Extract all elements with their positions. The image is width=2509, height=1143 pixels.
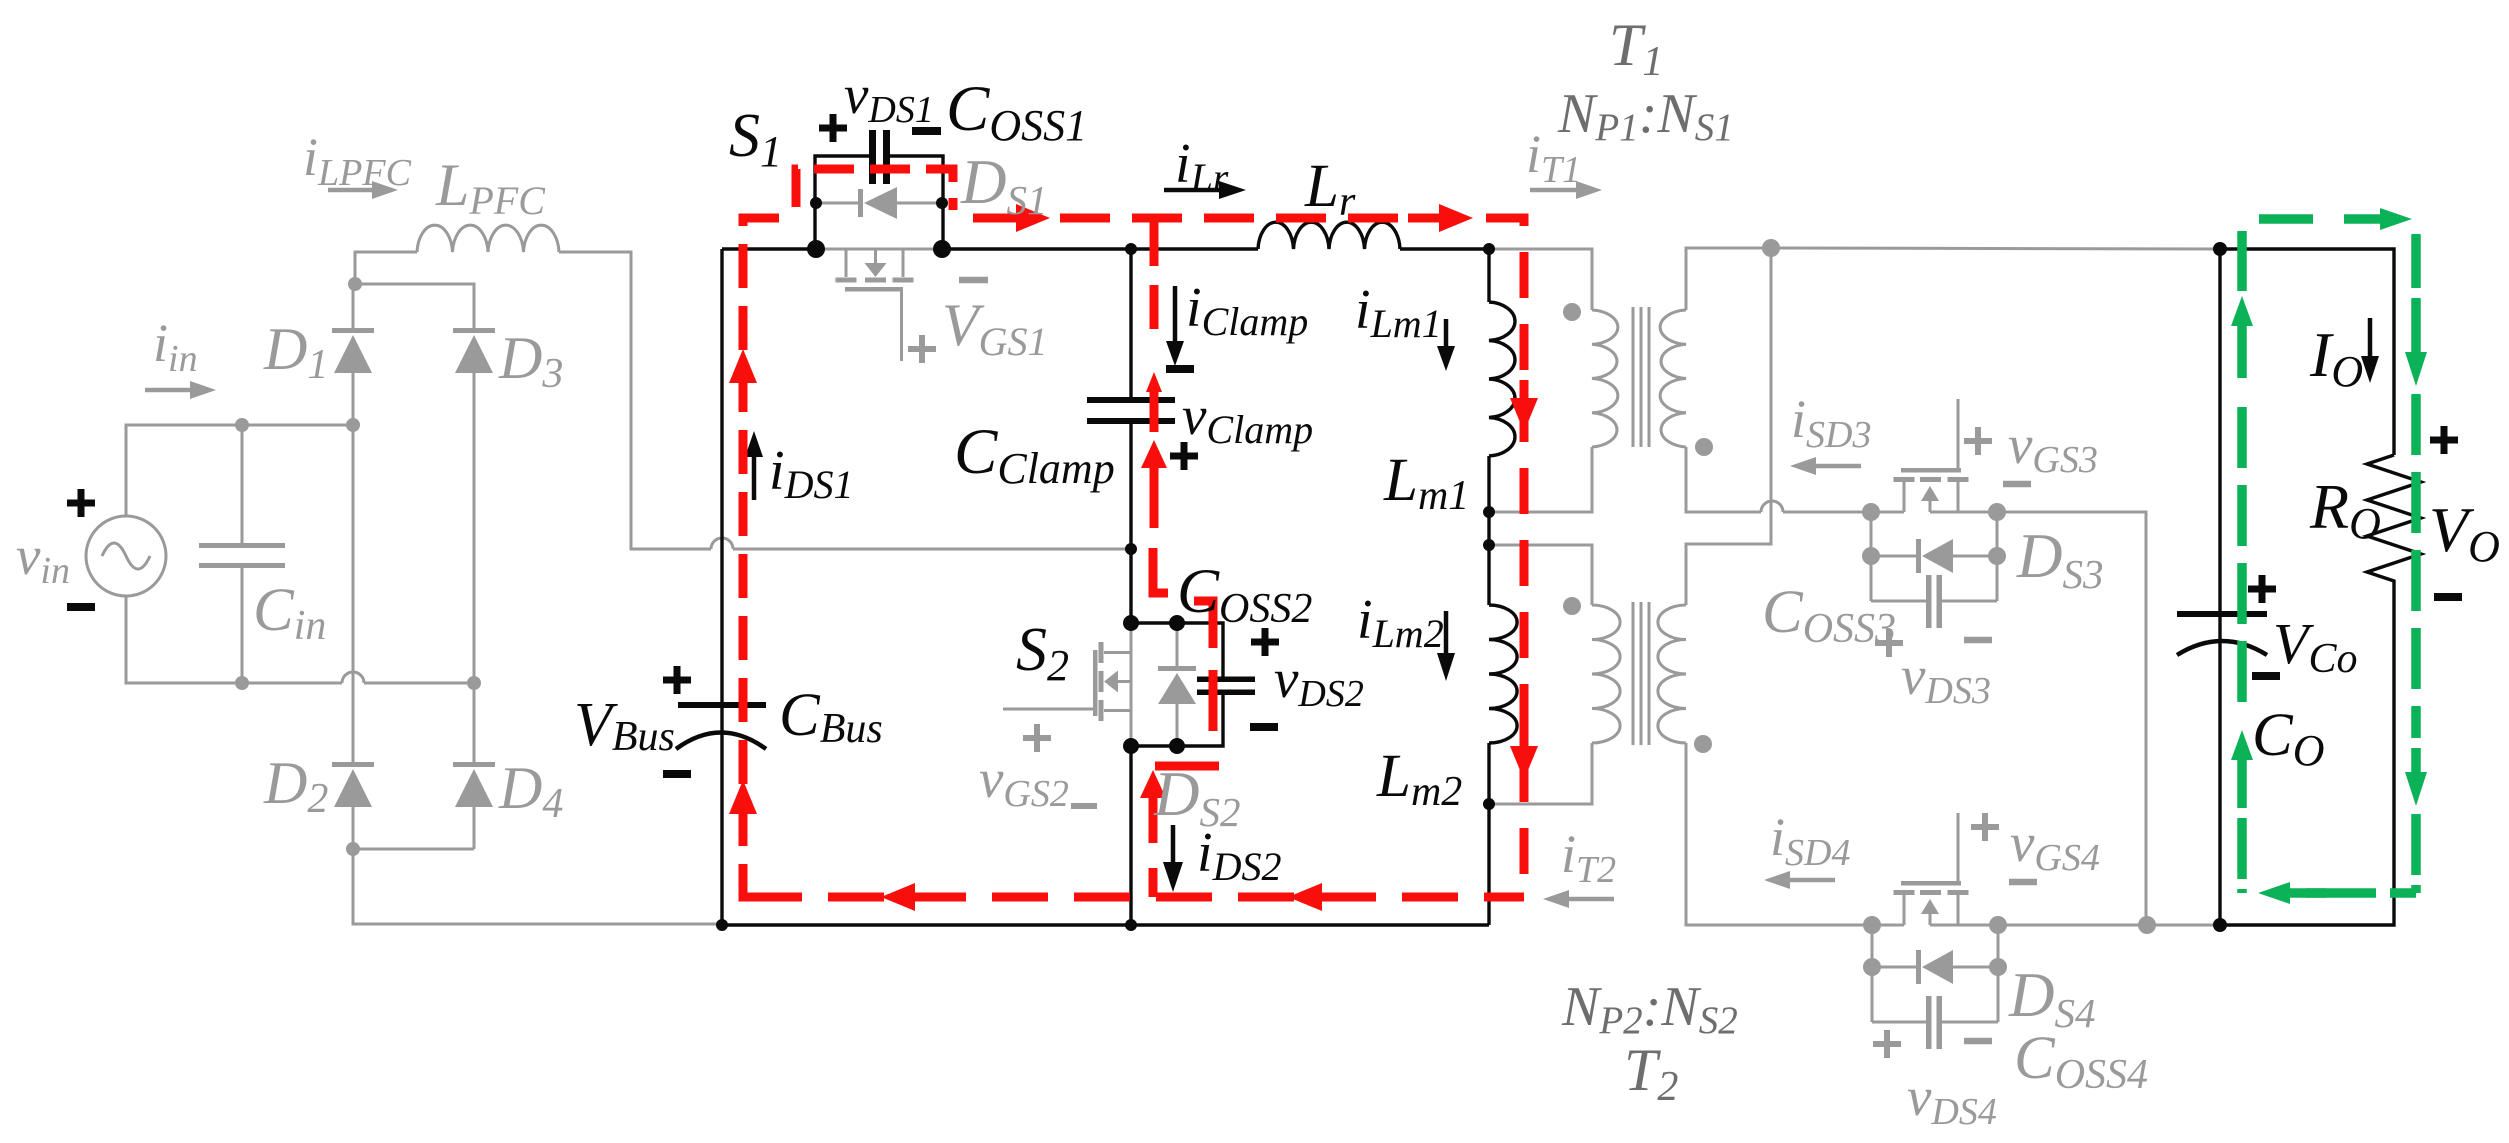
inductor Lm1 (1489, 249, 1515, 512)
mosfet S1 body (gray) (816, 249, 942, 361)
plus sign vGS4 (1971, 813, 1999, 841)
arrow iT1 (1530, 181, 1602, 199)
svg-text:iin: iin (153, 313, 198, 380)
body diode DS3 (1871, 512, 1997, 573)
red loop bottom rail dashes (746, 893, 1524, 902)
svg-text:CO: CO (2252, 702, 2324, 775)
transformer T1 primary winding (1592, 310, 1618, 447)
green arrow top right (2344, 208, 2412, 230)
wire vin bottom with hop over D1-D2 column (126, 596, 474, 683)
svg-text:Cin: Cin (253, 577, 326, 649)
wire T2 primary bottom lead (1489, 743, 1592, 804)
snubber box S2 top and right (1131, 623, 1223, 678)
svg-text:vDS2: vDS2 (1274, 648, 1364, 715)
phase dot T2 secondary (1694, 735, 1712, 753)
minus sign vClamp (1166, 365, 1194, 373)
svg-text:IO: IO (2309, 319, 2363, 396)
capacitor COSS2 (1197, 677, 1255, 696)
wire bus left leg upper (720, 249, 723, 698)
DOTS-SECTION (235, 197, 2227, 976)
body diode DS4 (1872, 925, 1998, 984)
svg-text:CBus: CBus (779, 682, 883, 752)
capacitor CBus (676, 698, 766, 925)
wire T1 primary top lead (1489, 249, 1592, 310)
svg-text:vGS3: vGS3 (2008, 414, 2098, 481)
svg-text:D2: D2 (263, 750, 328, 822)
arrow iLr (1164, 181, 1246, 199)
red clamp arrow below capacitor (1141, 440, 1167, 528)
minus sign vin (67, 603, 95, 611)
minus sign VO (2434, 593, 2462, 601)
inductor LPFC (417, 225, 559, 252)
svg-text:D3: D3 (498, 325, 563, 397)
wire T1 primary bottom lead (1489, 447, 1592, 512)
red arrow right leg down 2 (1510, 728, 1538, 780)
junction dots black (716, 197, 2227, 932)
mosfet S3 body (gray) (1894, 399, 1969, 512)
red clamp branch upper dashes (1150, 222, 1159, 330)
svg-text:VCo: VCo (2273, 611, 2357, 682)
svg-text:Lm1: Lm1 (1383, 447, 1469, 519)
red arrow bottom left 1 (881, 883, 940, 911)
phase dot T1 secondary (1695, 438, 1713, 456)
wire top rail S1 to clamp node (943, 247, 1258, 250)
wire output top rail (1771, 248, 2220, 249)
red arrow left leg up 2 (729, 780, 757, 831)
wire secondary bottom rail (1930, 924, 2220, 927)
svg-text:RO: RO (2309, 471, 2381, 548)
transformer T2 primary winding (1592, 605, 1620, 743)
plus sign VGS1 (908, 335, 936, 363)
svg-text:iSD3: iSD3 (1791, 389, 1871, 456)
junction dots gray secondary side (1762, 239, 2156, 976)
red arrow left leg up 1 (729, 349, 757, 400)
mosfet S4 body (gray) (1894, 813, 1969, 925)
wire T1 secondary top lead to output node (1686, 248, 1771, 310)
plus sign VCo (2248, 575, 2276, 603)
BLACK-SECTION (676, 130, 2421, 925)
plus sign vDS2 (1251, 628, 1279, 656)
minus sign vDS4 (1964, 1038, 1992, 1045)
plus sign vDS3 (1875, 629, 1903, 657)
red clamp arrow through capacitor (1146, 372, 1162, 432)
GRAY-SECTION (86, 181, 2220, 1049)
arrow iDS1 (745, 431, 763, 500)
arrow iSD3 (1790, 457, 1861, 475)
wire S4 drain lead (1872, 924, 1904, 927)
wire bridge return to bus negative (353, 849, 722, 924)
transformer T1 secondary winding (1660, 310, 1686, 447)
red loop right vertical (1486, 218, 1524, 893)
wire Lr to Lm node (1400, 247, 1489, 250)
wire S3 source to output leg (1997, 512, 2146, 925)
wire D4 bottom to D2 bottom (353, 848, 474, 851)
wire center tap drop to T2 secondary top (1686, 248, 1771, 605)
mosfet S2 body (gray) (1003, 623, 1131, 746)
svg-text:iT2: iT2 (1561, 824, 1616, 891)
wire output top to RO (2220, 249, 2394, 455)
capacitor COSS4 (1872, 967, 1998, 1049)
svg-text:NP2:NS2: NP2:NS2 (1561, 976, 1738, 1042)
svg-text:S2: S2 (1016, 616, 1069, 690)
plus sign CBus (663, 666, 691, 694)
arrow iLPFC (328, 181, 398, 199)
red arrow bottom left 2 (1288, 883, 1347, 911)
snubber box S2 bottom (1131, 695, 1223, 746)
minus sign VCo (2252, 672, 2280, 680)
svg-text:vDS3: vDS3 (1901, 645, 1991, 712)
wire bridge top node to LPFC (355, 252, 417, 284)
svg-text:VGS1: VGS1 (942, 292, 1048, 364)
wire bus top rail left (722, 247, 816, 250)
plus sign vClamp (1170, 442, 1198, 470)
svg-text:iSD4: iSD4 (1770, 807, 1850, 874)
minus sign vDS3 (1964, 637, 1992, 644)
minus sign vGS2 (1071, 803, 1097, 809)
resistor RO (2367, 455, 2421, 585)
red loop bottom-left corner (743, 872, 768, 897)
svg-text:COSS1: COSS1 (946, 73, 1087, 150)
svg-text:LPFC: LPFC (435, 152, 546, 223)
inductor Lm2 (1489, 605, 1517, 804)
diode D1 (332, 284, 374, 425)
arrow iT2 (1543, 890, 1614, 908)
green arrow left leg up 2 (2231, 730, 2253, 808)
red jog into S2 (1153, 548, 1168, 593)
arrow iin (145, 381, 216, 399)
plus sign VO (2430, 426, 2458, 454)
svg-text:D1: D1 (263, 316, 328, 388)
svg-text:VBus: VBus (574, 691, 675, 760)
wire S2 drain-source leg (1129, 741, 1132, 925)
green arrow bottom left (2258, 882, 2326, 904)
arrow iClamp (1166, 286, 1184, 366)
diode D2 (332, 762, 374, 849)
wire bus bottom rail (722, 923, 1489, 926)
svg-text:vDS4: vDS4 (1907, 1066, 1997, 1133)
green arrow right leg down 1 (2405, 298, 2427, 386)
svg-text:vGS4: vGS4 (2010, 812, 2100, 879)
arrow iDS2 (1163, 825, 1183, 892)
GREEN-SECTION (2231, 208, 2427, 904)
wire bridge top rail to D3 (355, 284, 474, 332)
wire Lm2 to bottom rail (1487, 804, 1490, 925)
RED-SECTION (729, 169, 1538, 911)
snubber box S1 left side (815, 156, 869, 249)
wire RO to bottom (2220, 585, 2394, 925)
svg-text:COSS2: COSS2 (1177, 556, 1312, 632)
wire T1 secondary bottom lead with hop (1686, 447, 1871, 512)
svg-text:Lm2: Lm2 (1376, 743, 1462, 815)
minus sign vGS4 (2009, 879, 2037, 886)
snubber box S1 right side (890, 156, 943, 249)
svg-text:NP1:NS1: NP1:NS1 (1557, 83, 1734, 149)
svg-text:vGS2: vGS2 (979, 748, 1069, 815)
svg-text:DS3: DS3 (2016, 521, 2104, 597)
transformer T2 secondary winding (1658, 605, 1686, 743)
green arrow left leg up 1 (2231, 296, 2253, 378)
minus sign vDS2 (1250, 723, 1278, 731)
svg-text:vin: vin (16, 525, 70, 592)
svg-text:vDS1: vDS1 (844, 64, 934, 131)
plus sign vDS4 (1873, 1030, 1901, 1058)
plus sign vDS1 (819, 114, 847, 142)
svg-text:iLm1: iLm1 (1355, 279, 1442, 346)
green loop right vertical dashes (2411, 234, 2421, 893)
svg-text:S1: S1 (729, 102, 782, 176)
junction dots gray input side (235, 277, 481, 856)
capacitor CO (2177, 249, 2267, 925)
wire T2 primary top lead (1489, 545, 1592, 605)
wire S3 drain lead (1871, 511, 1904, 514)
red arrow up through DS2 (1140, 770, 1166, 843)
body diode DS2 (1158, 623, 1196, 746)
diode D4 (453, 683, 495, 849)
red dash over DS2 (1155, 762, 1219, 771)
arrow iSD4 (1764, 871, 1835, 889)
diode D3 (453, 328, 495, 683)
wire T2 secondary bottom lead (1686, 743, 1872, 925)
ac source vin (86, 516, 166, 596)
green loop top rail dash (2259, 214, 2313, 224)
capacitor CClamp (1087, 249, 1175, 628)
svg-text:vClamp: vClamp (1182, 385, 1313, 452)
svg-text:iLm2: iLm2 (1357, 589, 1444, 656)
plus sign vin (67, 489, 95, 517)
capacitor COSS3 (1871, 556, 1997, 628)
red loop top rail dashes (1060, 214, 1405, 223)
arrow iLm1 (1437, 319, 1455, 371)
green arrow right leg down 2 (2405, 748, 2427, 806)
minus sign VGS1 (959, 277, 988, 284)
green loop bottom rail dashes (2306, 888, 2416, 898)
wire S3 source rail (1930, 511, 1997, 514)
minus sign CBus (663, 770, 691, 778)
red corner S2 to bottom rail (1149, 868, 1158, 897)
wire Lm1 to Lm2 (1487, 512, 1490, 605)
minus sign vDS1 (912, 127, 941, 135)
capacitor COSS1 (869, 130, 890, 184)
red arrow top after S1 (973, 204, 1050, 232)
svg-text:T1: T1 (1609, 12, 1663, 85)
red loop left vertical (743, 218, 779, 890)
red arrow right leg down 1 (1510, 380, 1538, 432)
svg-text:D4: D4 (498, 755, 563, 827)
arrow iLm2 (1437, 611, 1455, 681)
svg-text:iLr: iLr (1175, 133, 1229, 200)
svg-text:iClamp: iClamp (1186, 277, 1308, 344)
wire vin top to bridge (126, 425, 353, 516)
wire D1 to D2 column (352, 425, 355, 766)
red arrow top before Lm corner (1408, 204, 1473, 232)
svg-text:iLPFC: iLPFC (303, 127, 412, 194)
svg-text:Lr: Lr (1304, 153, 1356, 225)
plus sign vGS2 (1023, 724, 1051, 752)
transformer T2 core (1633, 602, 1649, 745)
wire LPFC to switch node with hop over S1 leg (559, 252, 1131, 549)
transformer T1 core (1633, 307, 1649, 447)
phase dot T2 primary (1563, 597, 1581, 615)
red jog over COSS2 top (1194, 601, 1213, 648)
svg-text:DS1: DS1 (960, 147, 1048, 223)
red loop jog over S1 (796, 169, 953, 210)
body diode DS1 (816, 187, 942, 219)
svg-text:T2: T2 (1624, 1037, 1678, 1110)
minus sign vGS3 (2003, 481, 2031, 488)
plus sign vGS3 (1964, 427, 1992, 455)
arrow IO (2361, 318, 2379, 383)
svg-text:VO: VO (2429, 494, 2500, 571)
svg-text:iDS1: iDS1 (769, 440, 853, 507)
phase dot T1 primary (1563, 303, 1581, 321)
red dash through COSS2 (1209, 670, 1218, 731)
capacitor Cin (199, 425, 285, 683)
inductor Lr (1258, 222, 1400, 249)
svg-text:CClamp: CClamp (954, 416, 1115, 493)
green loop left vertical dashes (2237, 231, 2247, 893)
